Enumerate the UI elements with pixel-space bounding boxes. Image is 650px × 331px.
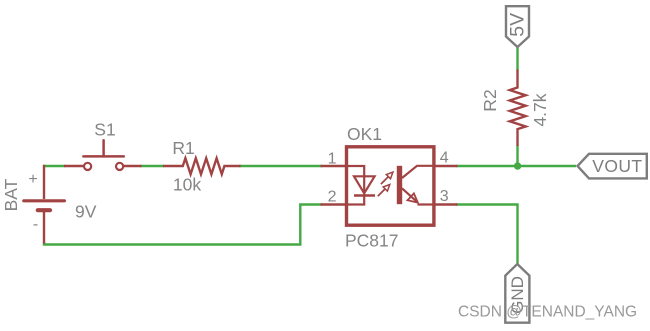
OK1 internal LED triangle [354, 176, 375, 193]
svg-text:4.7k: 4.7k [530, 93, 550, 126]
OK1 pin 3 lead [434, 203, 458, 205]
svg-text:CSDN @TENAND_YANG: CSDN @TENAND_YANG [458, 304, 637, 321]
svg-text:9V: 9V [75, 201, 97, 221]
wire net R2 to junction [516, 145, 518, 166]
switch S1 actuator stem [102, 140, 105, 156]
output flag VOUT [578, 154, 647, 179]
svg-text:5V: 5V [506, 13, 528, 37]
svg-text:VOUT: VOUT [592, 156, 642, 176]
switch S1 pin left [64, 165, 84, 167]
svg-text:4: 4 [440, 149, 449, 166]
svg-text:OK1: OK1 [347, 124, 382, 144]
OK1 phototransistor base bar [397, 166, 402, 204]
switch S1 contact circle right [116, 163, 123, 170]
svg-text:1: 1 [328, 150, 337, 167]
wire net from battery + to switch [43, 165, 66, 167]
OK1 light arrow upper [381, 172, 393, 184]
OK1 phototransistor emitter stub [418, 203, 434, 205]
OK1 internal LED cathode bar [354, 194, 375, 196]
svg-text:R1: R1 [172, 138, 194, 158]
op-to-coupler OK1 box [347, 147, 434, 225]
OK1 phototransistor emitter [402, 188, 418, 202]
svg-text:S1: S1 [94, 119, 115, 139]
wire net R1 to pin1 of OK1 [239, 165, 322, 167]
switch S1 contact circle left [84, 163, 91, 170]
wire net switch to R1 [140, 165, 164, 167]
OK1 pin 1 lead [321, 165, 347, 167]
OK1 internal LED anode path [347, 166, 365, 205]
svg-text:10k: 10k [173, 175, 201, 195]
svg-text:R2: R2 [480, 89, 500, 111]
svg-text:+: + [28, 171, 37, 188]
switch S1 actuator bar [83, 155, 123, 158]
OK1 light arrow lower [378, 185, 390, 197]
wire net 5V to R2 [516, 46, 518, 71]
svg-text:-: - [33, 216, 38, 233]
svg-text:3: 3 [440, 188, 449, 205]
wire bottom net battery - to pin2 of OK1 [44, 205, 322, 245]
resistor R2 [510, 70, 526, 147]
resistor R1 [163, 158, 241, 174]
ground symbol GND [505, 264, 529, 323]
OK1 phototransistor emitter arrowhead [408, 193, 418, 202]
OK1 pin 2 lead [321, 203, 347, 205]
OK1 pin 4 lead [434, 165, 458, 167]
wire net pin4 of OK1 to VOUT [456, 165, 576, 167]
OK1 phototransistor collector [402, 166, 434, 178]
svg-text:BAT: BAT [1, 178, 21, 211]
switch S1 pin right [124, 165, 142, 167]
supply symbol 5V [506, 6, 529, 47]
wire net pin3 of OK1 to GND [456, 205, 518, 265]
junction node at R2/VOUT [514, 162, 521, 169]
battery BAT [24, 165, 65, 244]
svg-text:PC817: PC817 [345, 231, 399, 251]
svg-text:2: 2 [328, 188, 337, 205]
